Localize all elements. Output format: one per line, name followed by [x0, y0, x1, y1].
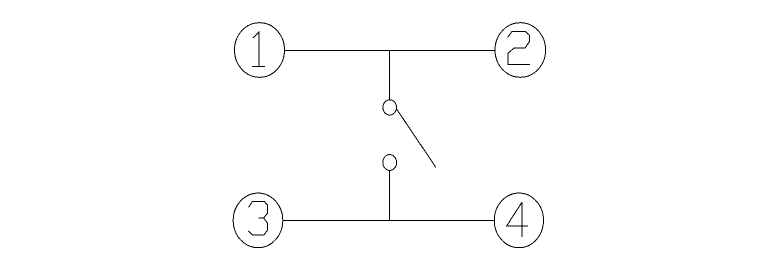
wire pin3 to pin4 (bottom horizontal): [283, 220, 495, 222]
switch upper contact circle: [383, 100, 397, 115]
pin 4 terminal circle: [494, 193, 543, 248]
wire junction stem to upper switch contact: [389, 51, 391, 101]
pin 2 label "2": [508, 32, 530, 65]
pin 1 label "1": [253, 32, 265, 66]
switch lever (actuator arm): [396, 109, 436, 168]
pin 3 terminal circle: [233, 193, 283, 248]
pin 3 label "3": [249, 202, 268, 235]
pin 4 label "4": [507, 203, 528, 237]
wire lower switch contact to bottom wire: [389, 170, 391, 220]
switch lower contact circle: [383, 155, 397, 171]
pin 2 terminal circle: [495, 23, 546, 78]
pin 1 terminal circle: [235, 23, 285, 78]
wire pin1 to pin2 (top horizontal): [285, 50, 496, 52]
